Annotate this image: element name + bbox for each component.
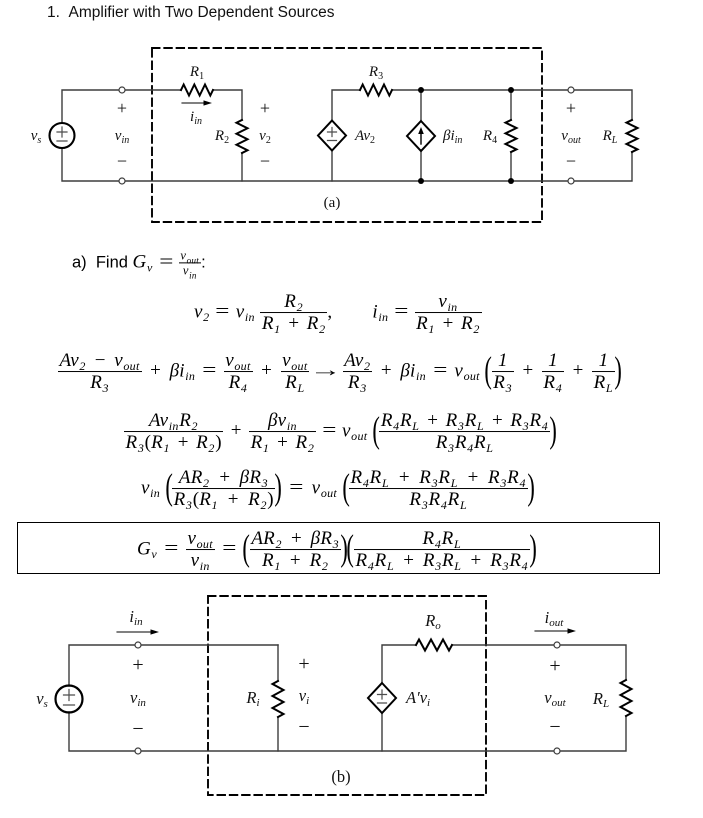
svg-text:−: − bbox=[132, 718, 143, 740]
wire: R4 branch bbox=[510, 90, 512, 181]
svg-text:−: − bbox=[566, 151, 576, 171]
node vout+ bbox=[568, 87, 574, 93]
resistor R1 bbox=[181, 85, 213, 96]
wire: R3 to RL top bbox=[393, 90, 632, 120]
label Ro bbox=[424, 611, 441, 632]
resistor R3 bbox=[360, 85, 392, 96]
svg-text:vin: vin bbox=[115, 128, 129, 146]
dashed amplifier box (a) bbox=[152, 48, 542, 222]
resistor RL bbox=[627, 120, 638, 152]
resistor RL bbox=[621, 680, 632, 716]
label vs bbox=[36, 689, 48, 710]
resistor R4 bbox=[506, 120, 517, 152]
svg-text:vout: vout bbox=[544, 688, 566, 709]
label RL bbox=[602, 128, 618, 146]
node vin- bbox=[135, 748, 141, 754]
svg-text:−: − bbox=[298, 716, 309, 738]
wire: Av2 top to R3 bbox=[332, 90, 360, 121]
svg-text:−: − bbox=[260, 151, 270, 171]
svg-text:(b): (b) bbox=[331, 767, 350, 786]
svg-text:+: + bbox=[117, 98, 127, 118]
junction: R4 bottom node bbox=[508, 178, 514, 184]
label (a) bbox=[324, 195, 341, 211]
wire: bottom rail full bbox=[62, 148, 632, 181]
label iin bbox=[190, 109, 202, 127]
wire: A'vi top to Ro bbox=[382, 645, 416, 683]
svg-text:+: + bbox=[549, 655, 560, 677]
svg-text:v2: v2 bbox=[259, 128, 271, 146]
label R2 bbox=[214, 128, 229, 146]
wire: Ro to RL top bbox=[452, 645, 626, 680]
svg-text:+: + bbox=[298, 653, 309, 675]
svg-text:Av2: Av2 bbox=[354, 128, 375, 146]
wire: A'vi bottom bbox=[381, 713, 383, 751]
svg-text:R4: R4 bbox=[482, 128, 497, 146]
svg-text:R1: R1 bbox=[189, 64, 204, 82]
label vs bbox=[31, 128, 42, 146]
wire: R1 to R2 top bbox=[213, 90, 242, 120]
svg-text:RL: RL bbox=[592, 689, 609, 710]
label Ri bbox=[245, 688, 259, 709]
source vs bbox=[56, 686, 83, 713]
junction: beta-iin top node bbox=[418, 87, 424, 93]
label (b) bbox=[331, 767, 350, 786]
dependent source Av2 bbox=[318, 121, 346, 151]
svg-text:iin: iin bbox=[129, 607, 143, 628]
resistor Ri bbox=[273, 681, 284, 717]
node vout+ bbox=[554, 642, 560, 648]
wire: bottom rail full bbox=[69, 712, 626, 751]
svg-text:R2: R2 bbox=[214, 128, 229, 146]
node vin- bbox=[119, 178, 125, 184]
label Av2 bbox=[354, 128, 375, 146]
svg-text:vout: vout bbox=[561, 128, 581, 146]
svg-text:+: + bbox=[566, 98, 576, 118]
svg-text:vs: vs bbox=[36, 689, 48, 710]
dependent source A'vi bbox=[368, 683, 396, 713]
label RL bbox=[592, 689, 609, 710]
wire: top left rail vs to R1 bbox=[62, 90, 181, 123]
svg-text:(a): (a) bbox=[324, 195, 341, 211]
node vout- bbox=[554, 748, 560, 754]
resistor Ro bbox=[416, 640, 452, 651]
svg-text:vs: vs bbox=[31, 128, 42, 146]
node vin+ bbox=[135, 642, 141, 648]
wire: top left rail vs to Ri bbox=[69, 645, 278, 686]
node vin+ bbox=[119, 87, 125, 93]
svg-text:vi: vi bbox=[299, 686, 309, 707]
dependent current source beta-iin bbox=[407, 121, 435, 151]
label v2 with polarity bbox=[259, 98, 271, 171]
label vin with polarity bbox=[130, 654, 146, 740]
label R4 bbox=[482, 128, 497, 146]
label R3 bbox=[368, 64, 383, 82]
svg-text:−: − bbox=[117, 151, 127, 171]
svg-text:Ri: Ri bbox=[245, 688, 259, 709]
label iout bbox=[545, 608, 565, 629]
label A'vi bbox=[405, 688, 430, 709]
current arrow iout bbox=[535, 628, 576, 633]
junction: R4 top node bbox=[508, 87, 514, 93]
dashed amplifier box (b) bbox=[208, 596, 486, 795]
source vs bbox=[50, 123, 75, 148]
label iin bbox=[129, 607, 143, 628]
label vout with polarity bbox=[544, 655, 566, 738]
wire: Ri branch bbox=[277, 645, 279, 751]
label vi with polarity bbox=[298, 653, 309, 738]
node vout- bbox=[568, 178, 574, 184]
svg-text:Ro: Ro bbox=[424, 611, 441, 632]
junction: beta-iin bottom node bbox=[418, 178, 424, 184]
wire: R2 bottom bbox=[241, 153, 243, 181]
resistor R2 bbox=[237, 120, 248, 153]
current arrow iin bbox=[117, 629, 159, 634]
svg-text:−: − bbox=[549, 716, 560, 738]
label vin with polarity bbox=[115, 98, 129, 171]
svg-text:+: + bbox=[132, 654, 143, 676]
svg-text:vin: vin bbox=[130, 688, 146, 709]
current arrow iin bbox=[182, 100, 212, 105]
svg-text:iout: iout bbox=[545, 608, 565, 629]
label vout with polarity bbox=[561, 98, 581, 171]
svg-text:iin: iin bbox=[190, 109, 202, 127]
wire: beta-iin branch bbox=[420, 90, 422, 181]
wire: Av2 bottom bbox=[331, 150, 333, 181]
label R1 bbox=[189, 64, 204, 82]
svg-text:A′vi: A′vi bbox=[405, 688, 430, 709]
svg-text:+: + bbox=[260, 98, 270, 118]
svg-text:RL: RL bbox=[602, 128, 618, 146]
svg-text:R3: R3 bbox=[368, 64, 383, 82]
label beta-iin bbox=[442, 128, 462, 146]
svg-text:βiin: βiin bbox=[442, 128, 462, 146]
